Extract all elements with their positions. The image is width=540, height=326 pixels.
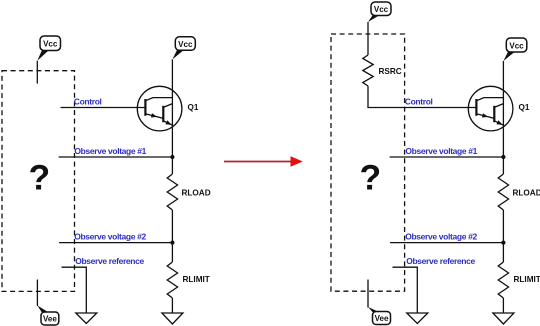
Vcc label V3 (right schematic, top of RSRC)	[368, 2, 391, 22]
svg-text:Vcc: Vcc	[509, 41, 524, 50]
ground (right, rail)	[493, 313, 514, 324]
wire Vcc to RSRC (right)	[367, 22, 369, 55]
wire Control (left)	[61, 107, 146, 109]
svg-text:Vee: Vee	[43, 315, 57, 324]
dashed box right (unknown block)	[331, 34, 405, 291]
wire rail lower (left)	[171, 298, 173, 313]
svg-text:Observe reference: Observe reference	[406, 256, 475, 266]
dashed box left (unknown block)	[2, 71, 75, 292]
wire rail mid (right)	[502, 210, 504, 262]
junction node V2 dot (right)	[501, 241, 505, 245]
transistor Q1 (right, darlington)	[468, 86, 513, 131]
wire Observe reference (left)	[62, 267, 87, 313]
resistor RLOAD (right)	[498, 174, 540, 210]
wire collector rail upper (left)	[171, 59, 173, 174]
wire Vcc V1 stub	[36, 61, 38, 84]
svg-text:Control: Control	[74, 97, 102, 107]
svg-text:Q1: Q1	[519, 103, 530, 112]
svg-text:Q1: Q1	[188, 103, 199, 112]
svg-text:Vcc: Vcc	[43, 40, 58, 49]
svg-text:Observe voltage #2: Observe voltage #2	[74, 231, 146, 241]
junction node V1 dot (right)	[501, 155, 505, 159]
junction node V2 dot (left)	[170, 241, 174, 245]
wire rail mid (left)	[171, 210, 173, 262]
resistor RSRC (right)	[363, 55, 402, 86]
wire Observe voltage #2 (right)	[390, 242, 503, 244]
Vee label (right)	[368, 280, 391, 325]
svg-text:Observe reference: Observe reference	[75, 256, 144, 266]
svg-text:Observe voltage #1: Observe voltage #1	[74, 146, 146, 156]
svg-text:Vee: Vee	[375, 314, 389, 323]
svg-text:RSRC: RSRC	[379, 67, 402, 76]
wire collector rail upper (right)	[502, 61, 504, 174]
ground (left, rail)	[162, 313, 183, 324]
Vcc label V4 (right, above Q1)	[503, 38, 526, 61]
svg-text:?: ?	[28, 158, 50, 198]
svg-text:Observe voltage #2: Observe voltage #2	[405, 231, 477, 241]
svg-text:Vcc: Vcc	[374, 5, 389, 14]
wire rail lower (right)	[502, 298, 504, 313]
wire Observe voltage #1 (left)	[59, 156, 173, 158]
svg-text:Vcc: Vcc	[178, 40, 193, 49]
Vcc label V2 (left, above Q1)	[172, 37, 195, 60]
svg-text:Control: Control	[405, 97, 433, 107]
svg-text:Observe voltage #1: Observe voltage #1	[405, 146, 477, 156]
svg-text:RLIMIT: RLIMIT	[514, 275, 540, 284]
svg-text:RLOAD: RLOAD	[513, 189, 540, 198]
transistor Q1 (left, darlington)	[137, 86, 182, 131]
wire Observe voltage #2 (left)	[59, 242, 172, 244]
arrow (red, between schematics)	[224, 156, 303, 167]
ground (right, observe reference)	[407, 313, 428, 324]
resistor RLIMIT (left)	[167, 262, 210, 298]
Vee label (left)	[37, 280, 58, 326]
wire RSRC to Control (right)	[368, 86, 476, 108]
svg-text:?: ?	[359, 158, 381, 198]
junction node V1 dot (left)	[170, 155, 174, 159]
svg-text:RLOAD: RLOAD	[182, 189, 211, 198]
Vcc label V1 (left schematic top-left)	[37, 36, 60, 61]
svg-text:RLIMIT: RLIMIT	[183, 275, 210, 284]
resistor RLIMIT (right)	[498, 262, 540, 298]
resistor RLOAD (left)	[167, 174, 210, 210]
wire Observe reference (right)	[393, 267, 418, 313]
ground (left, observe reference)	[76, 313, 97, 324]
wire Observe voltage #1 (right)	[390, 156, 504, 158]
